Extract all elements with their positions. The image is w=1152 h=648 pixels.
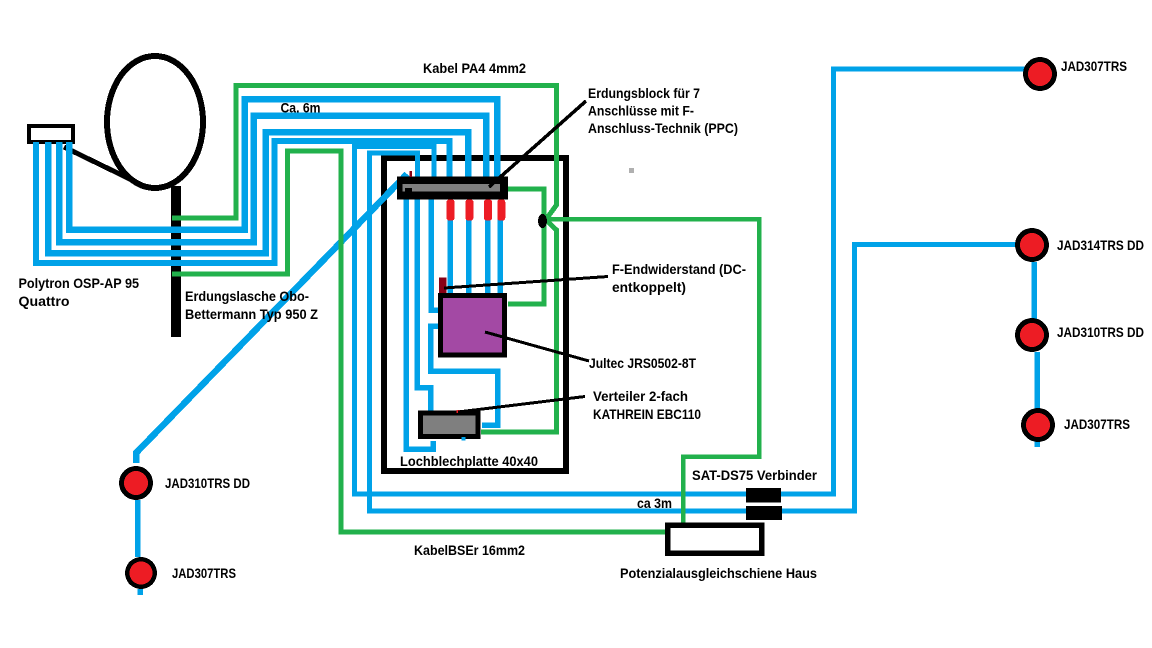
svg-text:Ca. 6m: Ca. 6m [281,100,321,116]
svg-text:KATHREIN EBC110: KATHREIN EBC110 [593,406,701,422]
F-Endwiderstand (maroon) [439,278,446,294]
outlet JAD310TRS DD right [1015,318,1049,352]
mast [171,186,181,337]
trunk cable B block->SAT-DS75->JAD314TRS [370,153,1019,511]
svg-text:Kabel PA4 4mm2: Kabel PA4 4mm2 [423,60,526,76]
svg-text:Anschlüsse mit F-: Anschlüsse mit F- [588,103,694,119]
svg-text:Polytron OSP-AP 95: Polytron OSP-AP 95 [19,275,140,291]
long diagonal cable block->JAD310TRS DD bottom left [136,174,407,463]
svg-text:JAD310TRS DD: JAD310TRS DD [165,475,250,491]
gray speck [629,168,634,173]
wire JAD314TRS->JAD310TRS DD [1031,262,1037,319]
svg-text:JAD307TRS: JAD307TRS [1061,58,1127,74]
svg-text:Anschluss-Technik (PPC): Anschluss-Technik (PPC) [588,120,738,136]
green wire KabelBSEr 16mm2 mast->Potenzialausgleichschiene [172,151,665,532]
outlet JAD314TRS DD [1015,228,1049,262]
svg-text:JAD314TRS DD: JAD314TRS DD [1057,237,1144,253]
green wire Kabel PA4 4mm2 mast->Verteiler [172,86,557,433]
green wire junction->Potenzialausgleichschiene [546,219,759,527]
outlet JAD307TRS top right [1023,57,1057,91]
wires block->Jultec inputs [448,216,454,295]
Potenzialausgleichschiene Haus box [668,525,762,553]
wire JAD310TRS DD->JAD307TRS [1034,352,1040,409]
red tick on Verteiler top [457,410,464,413]
wire block->Verteiler bottom [406,199,433,449]
junction dot [538,214,547,228]
cable 4 LNB->block [69,99,497,230]
LNB Polytron OSP-AP 95 [29,126,73,142]
wire Jultec->Verteiler right [431,326,498,425]
outlet JAD310TRS DD bottom left [119,466,153,500]
blue nub Verteiler bottom [462,437,466,441]
wire block->Jultec left [431,199,439,310]
svg-text:Erdungsblock für 7: Erdungsblock für 7 [588,85,700,101]
svg-text:JAD307TRS: JAD307TRS [1064,416,1130,432]
wire block->Verteiler top [417,199,431,413]
svg-text:F-Endwiderstand (DC-: F-Endwiderstand (DC- [612,261,746,277]
Verteiler KATHREIN EBC110 [418,411,481,440]
svg-text:Lochblechplatte 40x40: Lochblechplatte 40x40 [400,453,538,469]
green wire block->junction->Jultec [508,189,544,304]
svg-text:ca 3m: ca 3m [637,495,672,511]
cable 3 LNB->block [59,116,486,242]
cable 1 LNB->block [36,141,450,263]
svg-text:Jultec JRS0502-8T: Jultec JRS0502-8T [589,355,696,371]
LNB feed arm [64,147,136,182]
panel Lochblechplatte 40x40 [384,158,566,471]
label arrow F-Endwiderstand [444,277,608,289]
dark red tick above block [410,171,413,177]
SAT-DS75 Verbinder connectors [746,488,781,503]
Erdungsblock (grounding block) [397,177,508,200]
stub below JAD307TRS right [1034,441,1040,447]
svg-text:Bettermann Typ 950 Z: Bettermann Typ 950 Z [185,306,318,322]
label arrow Erdungsblock [489,101,586,187]
svg-text:Erdungslasche Obo-: Erdungslasche Obo- [185,288,309,304]
trunk cable A block->SAT-DS75->JAD307TRS top right [355,69,1027,494]
svg-text:SAT-DS75 Verbinder: SAT-DS75 Verbinder [692,467,818,483]
svg-text:entkoppelt): entkoppelt) [612,279,686,295]
svg-text:JAD307TRS: JAD307TRS [172,565,236,581]
Jultec JRS0502-8T [438,293,507,358]
svg-text:JAD310TRS DD: JAD310TRS DD [1057,324,1144,340]
red F-connectors below block [447,200,455,221]
cable 2 LNB->block [48,132,468,253]
svg-text:KabelBSEr 16mm2: KabelBSEr 16mm2 [414,542,525,558]
svg-text:Quattro: Quattro [19,293,70,309]
outlet JAD307TRS bottom left [125,557,157,589]
svg-text:Potenzialausgleichschiene Haus: Potenzialausgleichschiene Haus [620,565,817,581]
svg-text:Verteiler 2-fach: Verteiler 2-fach [593,388,688,404]
label arrow Jultec [485,332,589,361]
label arrow Verteiler [458,397,585,413]
outlet JAD307TRS right bottom [1021,408,1055,442]
satellite dish ellipse [107,56,203,188]
stub below JAD307TRS bottom left [137,589,143,595]
wire JAD310TRS DD->JAD307TRS bottom left [135,500,141,557]
